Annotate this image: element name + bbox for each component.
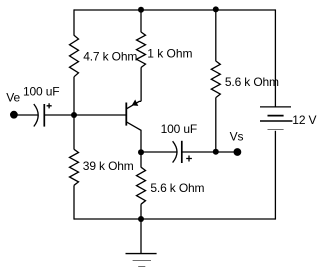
node top-5.6k junction xyxy=(213,6,219,12)
terminal Vs dot xyxy=(234,148,242,156)
svg-text:5.6 k Ohm: 5.6 k Ohm xyxy=(150,181,204,195)
wire C1 to base node and transistor base xyxy=(44,114,126,116)
battery B1 plate 4 short xyxy=(268,129,284,131)
resistor R5 5.6 k Ohm (bottom) xyxy=(137,167,146,204)
transistor Q1 base bar xyxy=(125,103,127,126)
wire R1 bottom to base node xyxy=(73,77,75,150)
transistor Q1 emitter arrow xyxy=(132,100,139,106)
wire 5.6k right bottom lead to output node xyxy=(215,98,217,152)
wire collector node to capacitor C2 xyxy=(141,151,177,153)
wire C2 to Vs terminal xyxy=(182,151,238,153)
terminal Ve input dot xyxy=(10,111,18,119)
wire R2 bottom to bottom rail xyxy=(73,185,75,219)
node collector-output junction xyxy=(138,149,144,155)
wire 5.6k right top lead xyxy=(215,10,217,61)
svg-text:100 uF: 100 uF xyxy=(23,85,59,99)
wire ground stem xyxy=(140,219,142,254)
svg-text:5.6 k Ohm: 5.6 k Ohm xyxy=(225,75,279,89)
node output junction xyxy=(213,149,219,155)
resistor R2 39 k Ohm xyxy=(70,149,79,185)
wire top rail xyxy=(74,9,275,11)
svg-text:12 V: 12 V xyxy=(292,113,316,127)
wire 1k bottom to transistor emitter xyxy=(140,68,142,102)
node ground junction xyxy=(138,216,144,222)
ground bar 1 xyxy=(126,253,157,255)
capacitor C1 straight plate xyxy=(43,104,45,127)
capacitor C1 100 uF curved plate xyxy=(34,104,38,127)
wire R5 bottom to ground node xyxy=(140,204,142,219)
node top-1k junction xyxy=(138,7,144,13)
svg-text:4.7 k Ohm: 4.7 k Ohm xyxy=(83,49,137,63)
transistor Q1 emitter diagonal xyxy=(126,101,141,109)
battery B1 plate 1 long xyxy=(260,106,291,108)
transistor Q1 collector diagonal xyxy=(126,122,141,152)
svg-text:Ve: Ve xyxy=(6,90,20,104)
wire left rail upper lead to R1 xyxy=(73,9,75,35)
wire right rail upper (to battery) xyxy=(274,9,276,107)
svg-text:Vs: Vs xyxy=(230,129,244,143)
wire 1k top lead xyxy=(140,10,142,32)
battery B1 plate 3 long with leader xyxy=(260,120,292,122)
resistor R4 5.6 k Ohm (right) xyxy=(211,61,220,98)
capacitor C2 100 uF curved plate xyxy=(173,141,177,162)
battery B1 plate 2 short xyxy=(268,115,284,117)
node base divider junction xyxy=(71,112,77,118)
svg-text:39 k Ohm: 39 k Ohm xyxy=(83,159,134,173)
polarity + of C1 xyxy=(47,103,52,108)
svg-text:100 uF: 100 uF xyxy=(161,122,197,136)
ground bar 3 xyxy=(138,266,145,268)
svg-text:1 k Ohm: 1 k Ohm xyxy=(147,46,192,60)
resistor R1 4.7 k Ohm xyxy=(70,35,79,77)
wire collector node to R5 top xyxy=(140,152,142,167)
polarity + of C2 xyxy=(186,156,192,162)
capacitor C2 straight plate xyxy=(181,141,183,163)
wire Ve to capacitor C1 xyxy=(14,114,38,116)
ground bar 2 xyxy=(133,260,151,262)
resistor R3 1 k Ohm xyxy=(137,32,146,68)
wire bottom rail xyxy=(74,218,275,220)
wire right rail lower (battery to bottom rail) xyxy=(274,131,276,220)
